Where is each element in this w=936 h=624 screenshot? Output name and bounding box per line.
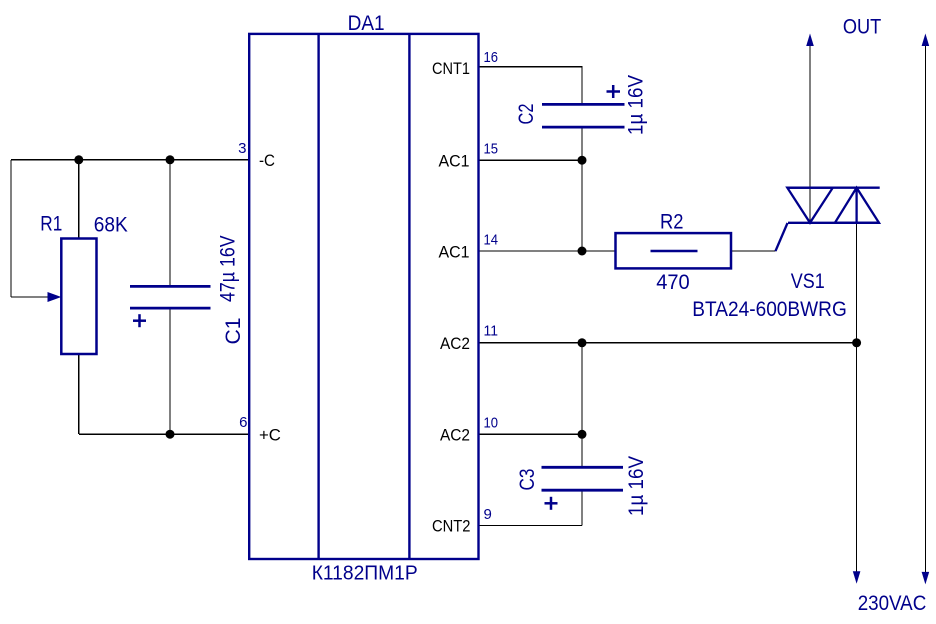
svg-text:16: 16 bbox=[484, 49, 499, 66]
svg-text:3: 3 bbox=[238, 140, 246, 157]
svg-text:1µ 16V: 1µ 16V bbox=[625, 75, 648, 135]
svg-text:15: 15 bbox=[484, 141, 499, 158]
svg-text:К1182ПМ1Р: К1182ПМ1Р bbox=[312, 563, 418, 585]
svg-text:AC2: AC2 bbox=[440, 334, 470, 353]
svg-text:230VAC: 230VAC bbox=[858, 592, 927, 615]
svg-text:BTA24-600BWRG: BTA24-600BWRG bbox=[692, 298, 847, 321]
svg-text:R2: R2 bbox=[660, 211, 684, 234]
svg-text:AC1: AC1 bbox=[439, 242, 470, 261]
svg-text:C2: C2 bbox=[515, 104, 538, 125]
svg-text:AC1: AC1 bbox=[439, 152, 470, 171]
svg-text:OUT: OUT bbox=[843, 16, 882, 39]
svg-text:VS1: VS1 bbox=[791, 270, 825, 293]
svg-text:10: 10 bbox=[484, 415, 499, 432]
svg-text:CNT2: CNT2 bbox=[432, 517, 471, 536]
svg-text:14: 14 bbox=[484, 232, 499, 249]
svg-text:AC2: AC2 bbox=[440, 426, 470, 445]
svg-text:DA1: DA1 bbox=[348, 12, 385, 35]
svg-text:C3: C3 bbox=[516, 469, 539, 491]
svg-text:47µ 16V: 47µ 16V bbox=[217, 235, 240, 302]
svg-text:CNT1: CNT1 bbox=[432, 59, 470, 78]
svg-text:C1: C1 bbox=[222, 318, 245, 345]
svg-text:11: 11 bbox=[484, 323, 499, 340]
svg-text:9: 9 bbox=[484, 506, 492, 523]
svg-text:+C: +C bbox=[259, 426, 281, 445]
svg-text:R1: R1 bbox=[40, 213, 62, 236]
svg-text:6: 6 bbox=[239, 414, 247, 431]
svg-text:470: 470 bbox=[656, 271, 690, 294]
svg-text:68K: 68K bbox=[94, 214, 128, 237]
svg-text:1µ 16V: 1µ 16V bbox=[625, 456, 648, 516]
svg-text:-C: -C bbox=[259, 151, 275, 170]
